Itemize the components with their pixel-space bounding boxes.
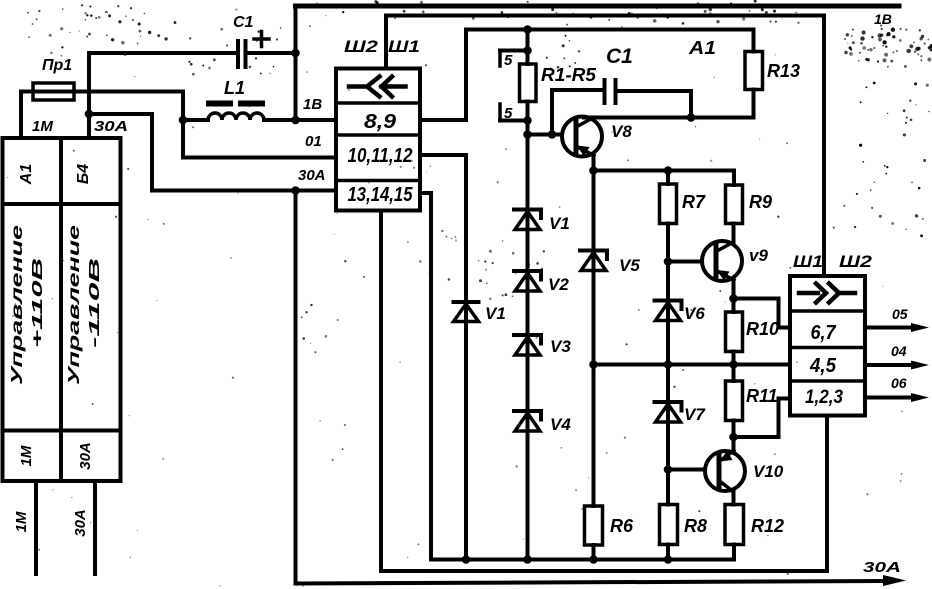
svg-text:R9: R9	[749, 192, 772, 212]
svg-text:V4: V4	[550, 415, 571, 434]
wire V9 emitter to connector row 6,7	[734, 299, 791, 328]
svg-text:30А: 30А	[94, 118, 128, 135]
svg-text:8,9: 8,9	[364, 111, 397, 133]
transistor V10	[705, 451, 745, 492]
zener diode V4	[514, 411, 541, 431]
wire table lead 1M	[34, 481, 38, 574]
svg-text:Ш2: Ш2	[344, 37, 379, 56]
wire table lead 30A	[93, 481, 97, 574]
junction V8 base node	[523, 130, 532, 139]
svg-text:V1: V1	[549, 214, 570, 233]
junction R1-R5 top	[523, 46, 532, 55]
fuse Pr1 body	[33, 83, 74, 100]
output arrow 04	[865, 363, 914, 367]
connector right mating symbol	[799, 284, 855, 303]
junction V6/V7 column rail	[664, 360, 673, 369]
arrowhead 30A bottom	[883, 575, 906, 586]
svg-text:1М: 1М	[18, 445, 35, 466]
zener diode V5	[580, 251, 607, 271]
wire pin5 bottom to column	[500, 119, 528, 123]
wire V8 collector bus	[584, 116, 754, 120]
junction R6 bus1	[589, 555, 598, 564]
svg-text:А1: А1	[688, 38, 716, 58]
wire R7 lead	[666, 171, 670, 185]
wire V9 base	[668, 260, 702, 264]
svg-text:5: 5	[504, 52, 513, 69]
svg-text:Управление: Управление	[66, 225, 83, 385]
svg-text:V5: V5	[619, 256, 640, 275]
junction A1 line	[523, 25, 532, 34]
wire top bus 1V	[296, 4, 900, 9]
table header divider	[3, 202, 121, 206]
svg-text:V8: V8	[611, 122, 632, 141]
junction 30A branch	[85, 110, 94, 119]
svg-text:04: 04	[891, 343, 907, 359]
svg-text:L1: L1	[224, 78, 245, 98]
svg-text:05: 05	[892, 306, 908, 322]
device table A1/B4 box	[3, 138, 121, 481]
wire R13 bottom lead	[752, 90, 756, 118]
table bottom row divider	[3, 429, 121, 433]
wire V8 base	[528, 133, 563, 137]
wire pin5 to R1-R5	[500, 49, 528, 53]
wire R7 to V9 base column	[666, 224, 670, 505]
transistor V8	[562, 117, 602, 157]
junction L1 output / 1V	[291, 116, 300, 125]
svg-text:R11: R11	[746, 386, 778, 406]
wire R6 bottom lead	[592, 545, 596, 560]
svg-text:Управление: Управление	[9, 225, 26, 385]
junction R10 rail 4,5	[729, 360, 738, 369]
diode V1 (left)	[454, 302, 479, 322]
wire R1-R5 top lead	[526, 30, 530, 65]
inductor L1 core bars	[206, 101, 265, 107]
svg-text:V7: V7	[684, 405, 706, 424]
connector Sh2/Sh1 box	[336, 69, 420, 211]
wire C1 left lead	[89, 51, 238, 55]
svg-text:10,11,12: 10,11,12	[348, 145, 413, 167]
wire R8 bottom lead	[666, 545, 670, 560]
wire C1 right lead	[246, 51, 296, 55]
svg-text:1,2,3: 1,2,3	[805, 387, 843, 408]
svg-text:V1: V1	[485, 304, 506, 323]
fuse Pr1 input wire	[21, 90, 183, 94]
transistor V9	[702, 241, 742, 281]
wire R9 top lead	[732, 171, 736, 186]
wire to connector row 1,2,3	[734, 399, 791, 438]
wire bottom 30A bus with arrow	[296, 581, 887, 584]
svg-text:30А: 30А	[863, 559, 901, 576]
junction C1 base node	[548, 130, 557, 139]
svg-text:06: 06	[891, 375, 907, 391]
svg-text:R12: R12	[751, 516, 784, 536]
svg-text:-110В: -110В	[86, 258, 103, 348]
wire R12 bottom lead	[732, 545, 736, 560]
wire L1 left stub	[183, 118, 208, 122]
svg-text:4,5: 4,5	[809, 355, 837, 377]
wire R13 top lead	[752, 30, 756, 52]
svg-text:30А: 30А	[298, 167, 326, 184]
svg-text:5: 5	[504, 105, 513, 122]
wire 8,9 row to A1 top line	[420, 30, 754, 121]
connector right row dividers	[790, 311, 865, 381]
wire R9 to V9 collector	[732, 224, 736, 243]
wire emitter rail to R7 R9	[594, 169, 735, 173]
wire 1M column down to table	[19, 92, 23, 139]
svg-text:v9: v9	[749, 246, 768, 265]
svg-text:+110В: +110В	[29, 258, 46, 348]
svg-text:1В: 1В	[303, 96, 322, 113]
svg-text:1В: 1В	[874, 11, 892, 27]
svg-text:V6: V6	[684, 304, 705, 323]
wire R10 bottom lead	[732, 352, 736, 365]
capacitor C1 polarity plus	[254, 32, 269, 47]
junction V1 column bus1	[462, 555, 471, 564]
pin 5 bottom bracket	[498, 104, 502, 121]
wire rail 4,5 to connector	[594, 363, 791, 367]
svg-text:С1: С1	[606, 45, 633, 68]
capacitor C1 (module) plates	[605, 80, 616, 103]
zener diode V1	[514, 210, 541, 230]
svg-text:1М: 1М	[32, 118, 53, 135]
svg-text:1М: 1М	[13, 511, 30, 532]
connector Sh1/Sh2 right box	[790, 276, 865, 416]
svg-text:А1: А1	[18, 164, 35, 186]
wire R10 top lead	[732, 299, 736, 313]
wire L1 output to connector row 8,9	[264, 118, 336, 122]
zener diode V3	[514, 335, 541, 355]
wire zener chain column	[526, 135, 530, 560]
svg-text:30А: 30А	[72, 509, 89, 537]
wire 30A branch to connector row 13,14,15	[89, 114, 336, 191]
junction R7 top	[664, 166, 673, 175]
junction V8 emitter rail	[589, 166, 598, 175]
output arrow 06	[865, 396, 914, 400]
wire connector bottom to bus2	[381, 211, 827, 572]
inductor L1 coil	[208, 113, 264, 120]
resistor R1-R5 body	[520, 64, 537, 102]
svg-text:01: 01	[305, 133, 322, 150]
junction C1/collector bus	[687, 113, 696, 122]
junction R8 bus1	[664, 555, 673, 564]
svg-text:13,14,15: 13,14,15	[348, 184, 414, 206]
wire R11 top lead	[732, 365, 736, 382]
junction V10 base	[664, 465, 673, 474]
zener diode V7	[655, 402, 682, 422]
wire V5 column	[592, 171, 596, 507]
wire 13,14,15 row to bottom bus1	[420, 193, 431, 560]
resistor R7 body	[660, 184, 677, 224]
svg-text:R1-R5: R1-R5	[541, 65, 597, 85]
svg-text:R8: R8	[684, 516, 707, 536]
zener diode V6	[655, 301, 682, 321]
table column divider	[59, 138, 63, 481]
junction V9 emitter	[729, 294, 738, 303]
svg-text:V3: V3	[550, 337, 571, 356]
svg-text:С1: С1	[233, 14, 254, 31]
resistor R6 body	[585, 506, 603, 545]
wire vertical from top bus to L1 output	[294, 6, 298, 120]
junction V9 base	[664, 257, 673, 266]
wire bottom bus1	[431, 558, 734, 562]
output arrow 05	[865, 326, 914, 330]
junction C1/top-bus	[291, 49, 300, 58]
wire R11 bottom to V10 collector	[732, 421, 736, 451]
svg-text:Б4: Б4	[75, 164, 92, 184]
resistor R11 body	[726, 381, 743, 421]
wire V10 emitter to R12	[732, 491, 736, 505]
resistor R12 body	[725, 505, 744, 545]
connector Sh2/Sh1 mating symbol	[349, 77, 406, 97]
svg-text:Ш2: Ш2	[839, 252, 873, 271]
wire top bus 2	[386, 16, 824, 277]
svg-text:V2: V2	[548, 275, 569, 294]
resistor R13 body	[745, 52, 763, 90]
pin 5 top bracket	[498, 51, 502, 67]
junction R1-R5 bottom pin	[523, 116, 532, 125]
svg-text:Пр1: Пр1	[42, 57, 72, 74]
wire 30A column down to table	[87, 53, 91, 138]
junction R11/V10/row123	[729, 433, 738, 442]
svg-text:R13: R13	[767, 61, 800, 81]
wire 01 row	[183, 156, 336, 160]
wire V10 base	[668, 468, 705, 472]
wire C1 right to collector bus	[616, 91, 692, 118]
svg-text:R10: R10	[746, 319, 779, 339]
capacitor C1 (top) plates	[238, 41, 246, 67]
svg-text:30А: 30А	[77, 442, 94, 470]
junction 30A row to bottom bus	[291, 186, 300, 195]
svg-text:Ш1: Ш1	[793, 252, 823, 271]
svg-text:R6: R6	[610, 516, 634, 536]
junction L1 left	[179, 116, 188, 125]
svg-text:V10: V10	[753, 462, 784, 481]
wire V8 emitter drop	[592, 154, 596, 171]
resistor R9 body	[726, 185, 743, 224]
svg-text:Ш1: Ш1	[388, 37, 420, 56]
capacitor C1 (module A1) left wire	[552, 90, 605, 135]
wire 30A down left side to bottom bus	[294, 191, 298, 584]
wire R1-R5 bottom lead	[526, 102, 530, 135]
svg-text:R7: R7	[682, 192, 706, 212]
wire V9 emitter drop	[732, 279, 736, 299]
zener diode V2	[514, 271, 541, 291]
resistor R10 body	[726, 312, 743, 352]
wire fuse output down to L1 and 01 row	[181, 92, 185, 158]
connector Sh2/Sh1 row dividers	[336, 103, 420, 181]
wire 10,11,12 row to diode V1 column	[420, 155, 466, 560]
junction V5 rail 4,5	[589, 360, 598, 369]
junction zener chain bus1	[523, 555, 532, 564]
resistor R8 body	[660, 505, 678, 545]
svg-text:6,7: 6,7	[811, 322, 837, 344]
